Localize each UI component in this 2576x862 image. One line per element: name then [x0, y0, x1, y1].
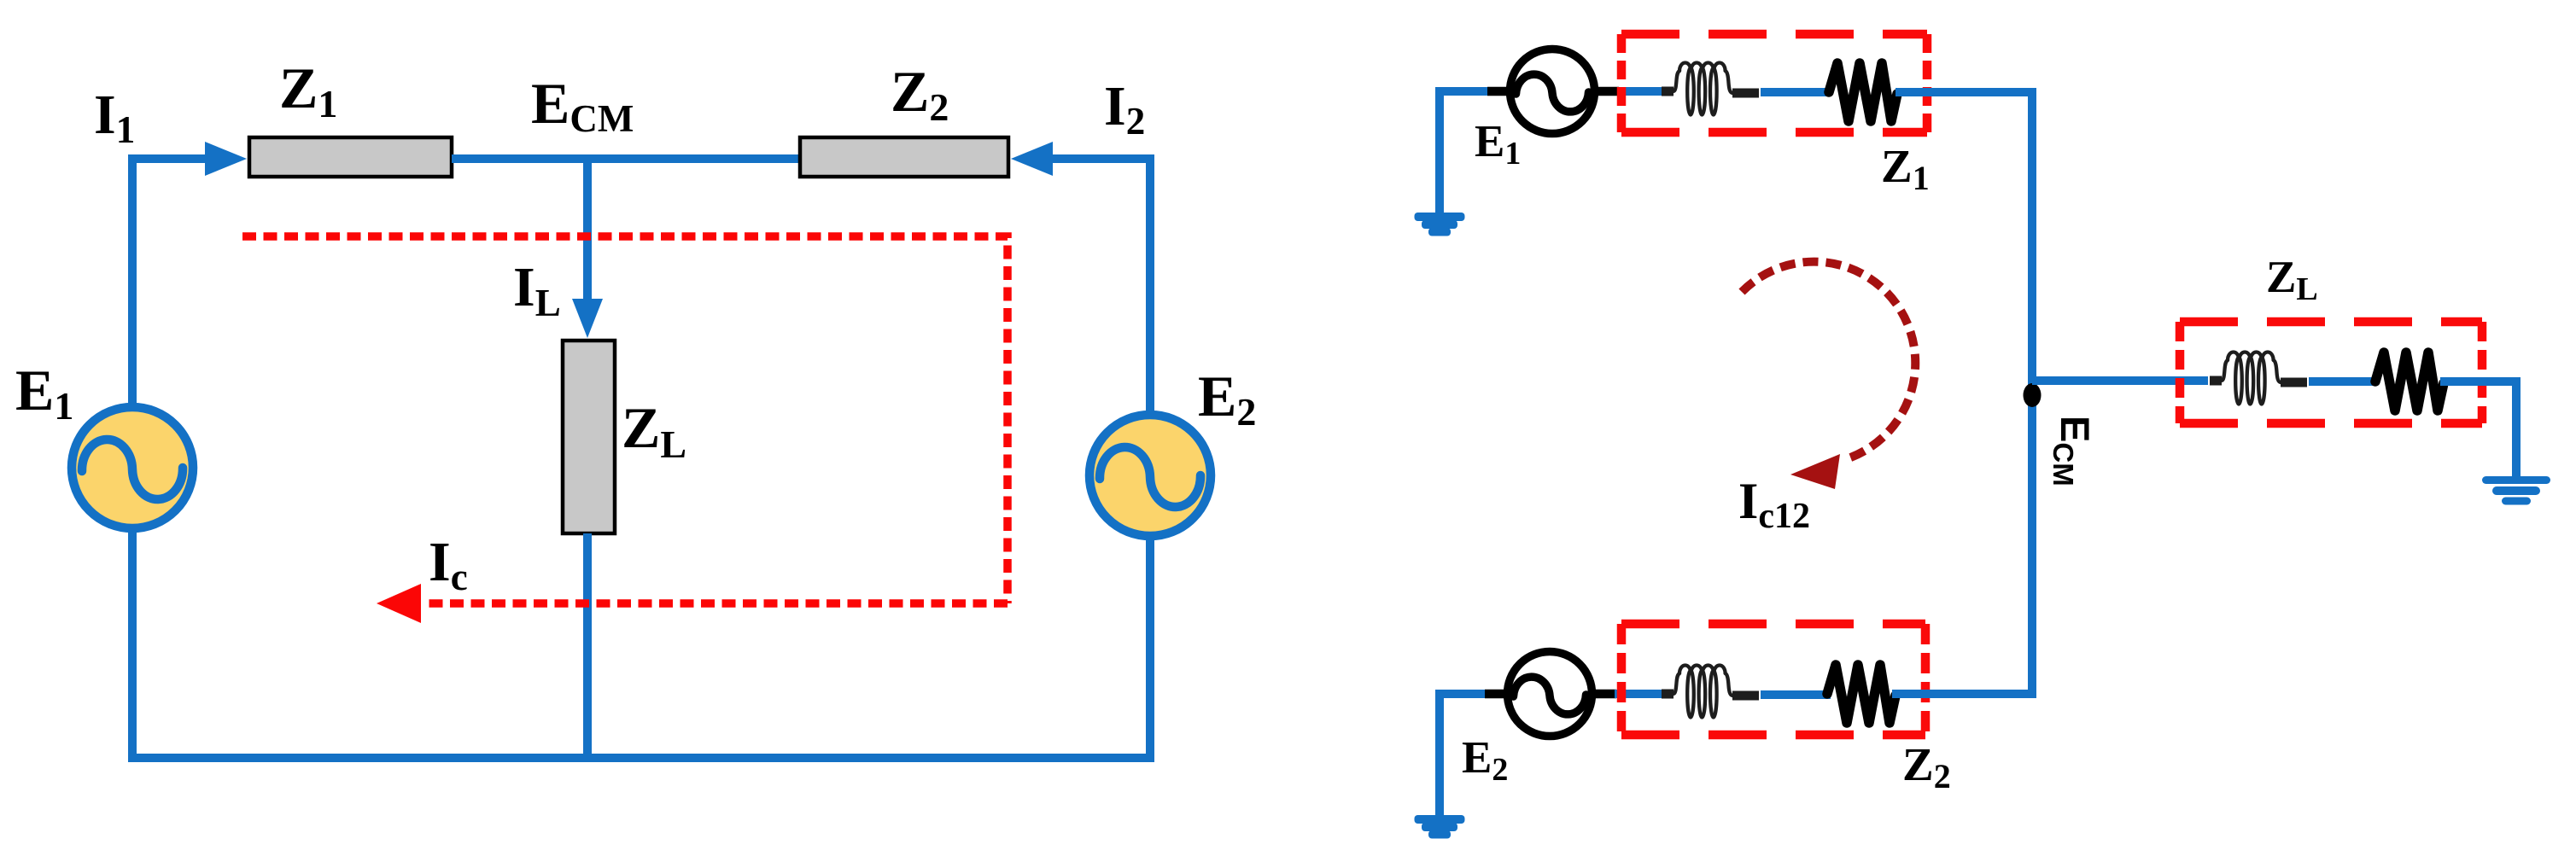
wire: bottom horizontal return [128, 754, 1154, 762]
arrow I1 current direction (blue, pointing right into Z1) [205, 142, 247, 176]
wire: E1 branch blue segment inductor to resistor [1761, 88, 1831, 96]
wire: top-left horizontal segment from corner to arrow [128, 154, 210, 163]
resistor Z2 (gray box) [800, 137, 1008, 177]
wire: top middle horizontal from Z1 to Z2 [452, 154, 800, 163]
wire: center vertical from ZL down to bottom wire [583, 533, 592, 758]
resistor (ZL box) [2375, 352, 2444, 411]
wire: E2 branch blue segment source to inductor [1615, 690, 1663, 698]
impedance box Z2 (red dashed) [1621, 624, 1925, 735]
wire: E1 branch to right bus [1895, 88, 2036, 96]
wire: E1 branch vertical to ground [1435, 87, 1444, 213]
wire: E2 branch to right bus [1892, 690, 2036, 698]
wire: right ground vertical [2512, 377, 2521, 477]
wire: right vertical bus [2028, 88, 2036, 698]
wire: E2 branch left stub [1440, 690, 1492, 698]
arrow I2 current direction (blue, pointing left into Z2) [1011, 142, 1053, 176]
wire: center vertical from ECM junction down to IL arrow [583, 159, 592, 303]
wire: E1 branch blue segment source to inductor [1617, 87, 1663, 96]
loop Ic red dashed bottom segment [422, 599, 1008, 608]
wire: right vertical from corner down to source E2 [1146, 154, 1154, 416]
arrow IL current direction (blue, pointing down into ZL) [572, 299, 603, 338]
inductor (Z1 box) [1662, 63, 1759, 115]
impedance box Z1 (red dashed) [1621, 34, 1927, 132]
source E1 (AC, black) [1487, 50, 1619, 134]
wire: right vertical from E2 down to bottom wire [1146, 535, 1154, 762]
wire: ZL blue segment inductor to resistor [2309, 377, 2377, 386]
arrow Ic12 (dark red, pointing left-down) [1790, 454, 1840, 489]
wire: E2 branch vertical to ground [1435, 690, 1444, 816]
impedance box ZL (red dashed) [2180, 322, 2482, 423]
source E1 (AC, yellow circle blue stroke) [72, 407, 193, 528]
ground (ZL, bars) [2482, 476, 2550, 505]
source E2 (AC, yellow circle blue stroke) [1089, 415, 1211, 536]
loop Ic red dashed path (top and right segments) [242, 236, 1008, 603]
wire: left vertical from top-left corner down to source E1 [128, 154, 137, 408]
ground (E2 branch, stepped) [1415, 815, 1465, 839]
resistor Z1 (gray box) [249, 137, 452, 177]
ground (E1 branch, stepped) [1415, 213, 1465, 236]
wire: ZL to right ground corner [2440, 377, 2521, 386]
node ECM junction dot [2024, 383, 2042, 407]
loop Ic12 dark red dashed arc [1742, 262, 1915, 460]
wire: E1 branch left stub [1440, 87, 1492, 96]
source E2 (AC, black) [1485, 652, 1616, 737]
wire: top-right horizontal from arrow tail to right corner [1053, 154, 1154, 163]
arrow Ic (red, pointing left) [377, 584, 421, 623]
wire: ECM node to ZL box [2032, 376, 2208, 385]
inductor (Z2 box) [1662, 666, 1759, 718]
resistor ZL (gray vertical box) [563, 341, 615, 533]
resistor (Z1 box) [1829, 63, 1897, 121]
resistor (Z2 box) [1827, 665, 1895, 723]
wire: left vertical from E1 down to bottom wire [128, 527, 137, 762]
inductor (ZL box) [2210, 352, 2307, 405]
wire: E2 branch blue segment inductor to resistor [1761, 690, 1831, 699]
